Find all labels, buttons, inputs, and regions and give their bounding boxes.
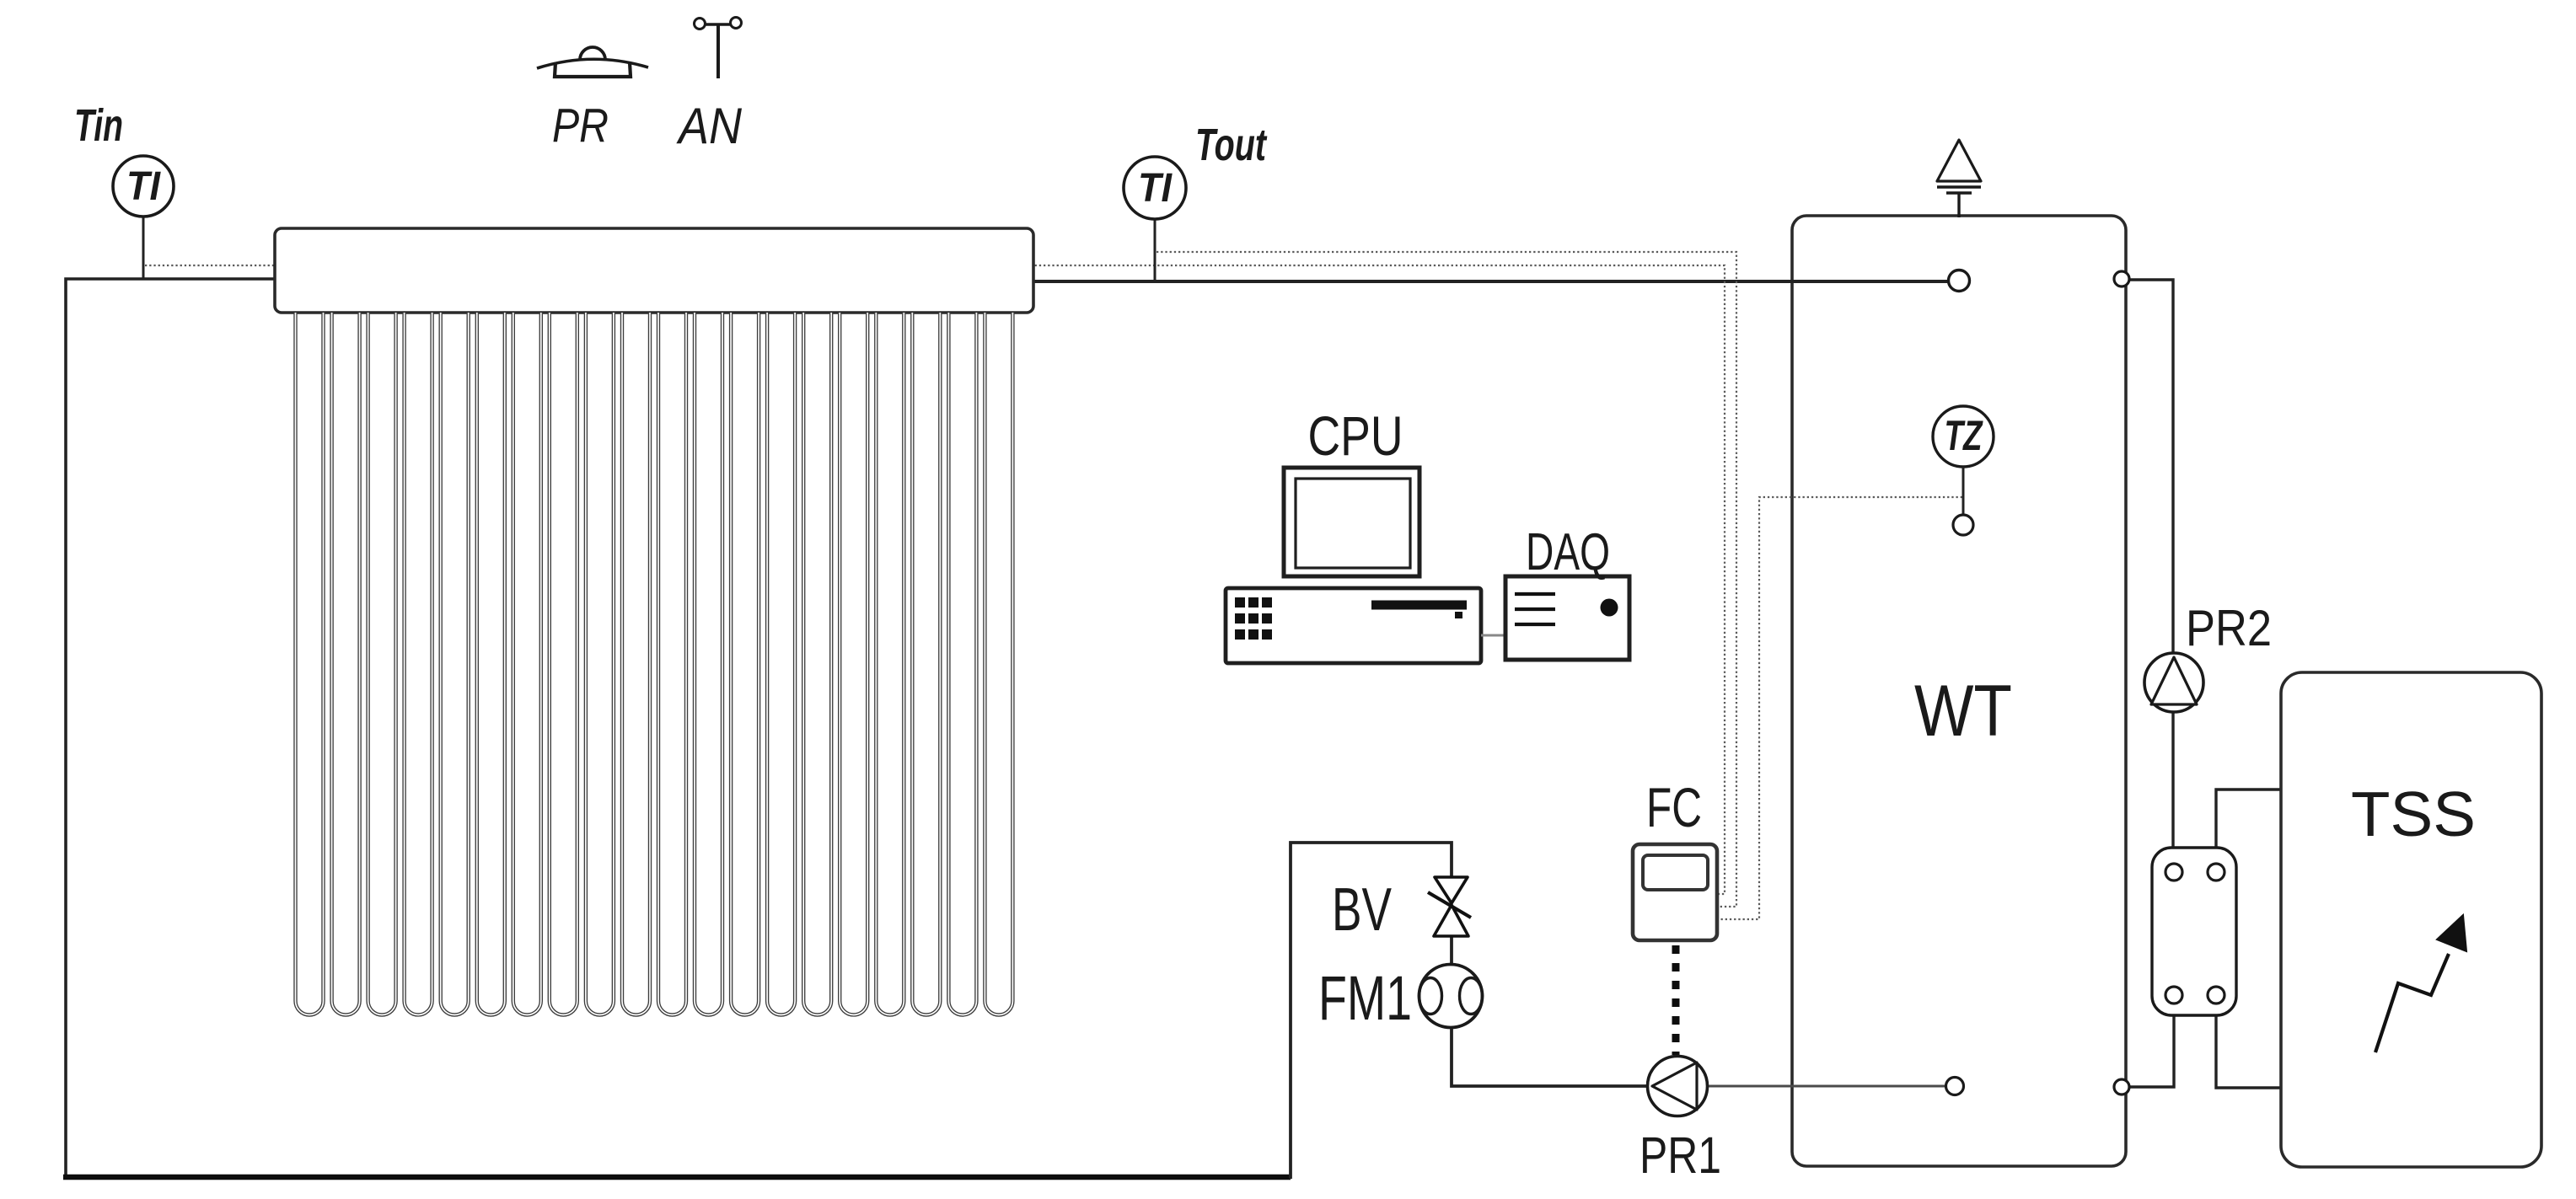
sensor TI (Tin)	[113, 156, 174, 217]
collector U-tube 3	[368, 313, 396, 1015]
svg-text:FC: FC	[1646, 776, 1702, 838]
collector U-tube 7	[513, 313, 541, 1015]
collector U-tube 13	[731, 313, 759, 1015]
svg-text:PR2: PR2	[2186, 600, 2272, 656]
svg-text:TI: TI	[126, 164, 162, 209]
wire: heat exchanger bottom-right to TSS	[2216, 1003, 2281, 1088]
flow controller FC box	[1633, 844, 1717, 940]
valve BV	[1428, 877, 1471, 936]
computer CPU monitor	[1284, 468, 1419, 576]
svg-text:PR1: PR1	[1640, 1127, 1721, 1184]
svg-text:WT: WT	[1914, 671, 2012, 752]
svg-text:AN: AN	[676, 98, 742, 154]
tank top inlet port	[1949, 270, 1970, 292]
sensor TI (Tout)	[1124, 157, 1186, 219]
collector U-tube 1	[296, 313, 324, 1015]
collector U-tube 5	[441, 313, 469, 1015]
wire: pump PR1 outlet to tank bottom port	[1706, 1085, 1947, 1088]
wire: BV to FM1	[1450, 935, 1453, 966]
signal wire (dotted): TZ sensor to FC	[1719, 497, 1962, 919]
collector U-tube 2	[332, 313, 360, 1015]
anemometer AN icon	[695, 18, 742, 79]
heat exchanger	[2152, 848, 2236, 1015]
wire: collector supply pipe top-left (Tin side)	[66, 279, 275, 1178]
collector U-tube 9	[586, 313, 614, 1015]
TSS rising arrow icon	[2375, 915, 2466, 1052]
wire: PR2 down to heat exchanger	[2171, 711, 2174, 864]
collector U-tube 14	[767, 313, 795, 1015]
sensor TZ	[1933, 406, 1994, 467]
wire: tank top-right to PR2 riser	[2128, 280, 2173, 655]
computer CPU base unit	[1226, 588, 1481, 663]
svg-text:PR: PR	[552, 99, 609, 153]
control wire (dashed): FC to pump PR1	[1672, 945, 1680, 1055]
wire: bottom return pipe	[63, 1175, 1291, 1180]
svg-text:TSS: TSS	[2351, 779, 2476, 849]
wire: CPU to DAQ	[1481, 634, 1505, 637]
tank bottom inlet port (from PR1)	[1946, 1078, 1964, 1095]
tank vent symbol	[1937, 140, 1981, 217]
collector U-tube 11	[658, 313, 686, 1015]
collector U-tube 19	[948, 313, 976, 1015]
svg-text:TZ: TZ	[1945, 412, 1984, 459]
thermal storage system TSS box	[2281, 672, 2541, 1167]
svg-text:BV: BV	[1332, 876, 1392, 944]
pump PR2	[2144, 653, 2203, 712]
sensor TZ probe stem	[1962, 467, 1965, 516]
wire: heat exchanger top-right up and to TSS	[2216, 790, 2281, 864]
collector U-tube 4	[405, 313, 432, 1014]
sensor TZ probe tip	[1953, 515, 1973, 535]
flow meter FM1	[1419, 965, 1483, 1028]
pyranometer PR icon	[537, 47, 648, 77]
signal wire (dotted): Tout sensor to FC	[1157, 252, 1736, 907]
collector U-tube 18	[912, 313, 940, 1015]
collector U-tube 10	[622, 313, 650, 1015]
collector U-tube 16	[840, 313, 867, 1014]
sensor TI (Tout) stem	[1154, 219, 1157, 282]
collector manifold header	[275, 228, 1033, 313]
DAQ box	[1505, 576, 1629, 660]
collector U-tube 12	[695, 313, 722, 1015]
wire: heat exchanger bottom-left to tank bottom-right port	[2129, 1003, 2174, 1087]
wire: collector outlet pipe (Tout side) into tank	[1033, 280, 1949, 283]
collector U-tube 17	[876, 313, 904, 1015]
pump PR1	[1648, 1057, 1708, 1116]
collector U-tube 6	[477, 313, 505, 1015]
tank WT body	[1792, 216, 2126, 1166]
wire: FM1 down and right to pump PR1	[1452, 1026, 1649, 1086]
sensor TI (Tin) stem	[142, 217, 145, 279]
wire: return riser to BV loop	[1291, 843, 1452, 1179]
svg-text:FM1: FM1	[1318, 963, 1412, 1033]
svg-text:DAQ: DAQ	[1526, 523, 1610, 581]
collector U-tube 15	[803, 313, 831, 1015]
collector U-tube 8	[550, 313, 577, 1015]
svg-text:TI: TI	[1138, 166, 1173, 211]
svg-text:CPU: CPU	[1308, 404, 1403, 467]
svg-text:Tout: Tout	[1195, 120, 1267, 170]
collector U-tube 20	[985, 313, 1012, 1015]
tank bottom-right port	[2114, 1079, 2129, 1095]
signal wire (dotted): Tin sensor to FC	[145, 265, 1725, 894]
svg-text:Tin: Tin	[74, 100, 123, 151]
tank top-right outlet port	[2114, 271, 2129, 286]
